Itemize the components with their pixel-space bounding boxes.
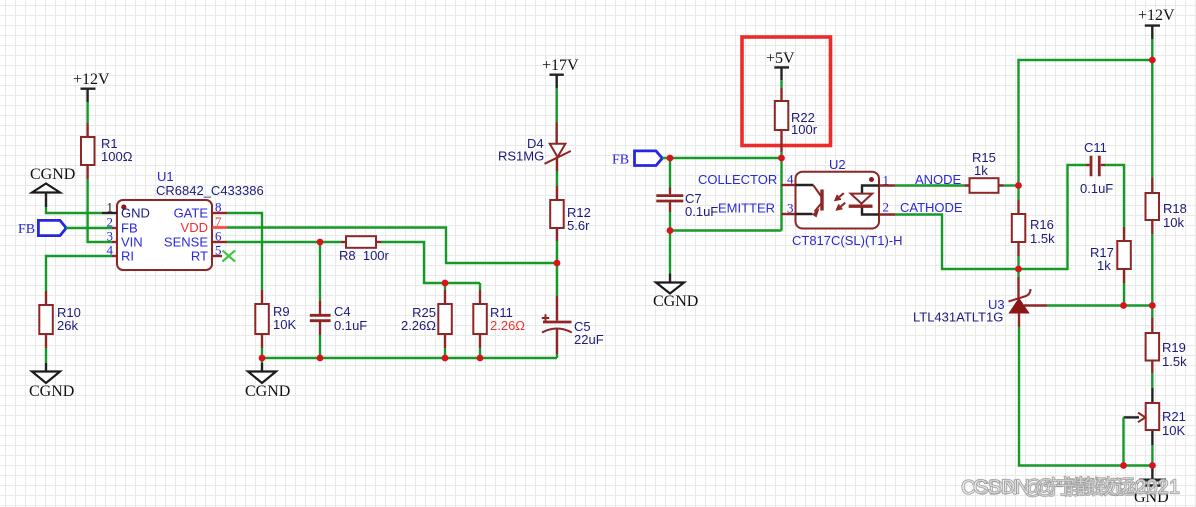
- svg-text:6: 6: [215, 229, 222, 244]
- wire C7 to emitter rail: [670, 229, 782, 231]
- svg-text:CGND: CGND: [29, 383, 74, 400]
- svg-text:3: 3: [107, 229, 114, 244]
- optocoupler U2 CT817C: [792, 157, 903, 248]
- svg-text:CT817C(SL)(T1)-H: CT817C(SL)(T1)-H: [792, 233, 903, 248]
- wire R18 to U3 ref node: [1151, 234, 1153, 305]
- svg-text:GND: GND: [121, 206, 150, 221]
- svg-text:CGND: CGND: [653, 293, 698, 310]
- svg-text:+12V: +12V: [1138, 7, 1175, 24]
- wire R9 to ground rail: [261, 348, 263, 358]
- svg-text:VIN: VIN: [121, 235, 143, 250]
- svg-text:100r: 100r: [791, 122, 818, 137]
- shunt regulator U3 LTL431: [913, 269, 1047, 327]
- resistor R19: [1146, 305, 1187, 373]
- resistor R22: [775, 88, 818, 152]
- svg-text:1.5k: 1.5k: [1030, 231, 1055, 246]
- resistor R10: [39, 291, 81, 348]
- svg-text:5.6r: 5.6r: [567, 218, 590, 233]
- watermark: [961, 476, 1180, 500]
- capacitor C4: [310, 242, 368, 358]
- svg-text:RI: RI: [121, 249, 134, 264]
- svg-text:SENSE: SENSE: [164, 235, 208, 250]
- power +17V: [542, 57, 579, 88]
- highlight box (red): [742, 37, 831, 146]
- wire R21 wiper down: [1122, 417, 1124, 465]
- U2 light arrows: [836, 193, 844, 200]
- svg-text:0.1uF: 0.1uF: [334, 318, 367, 333]
- wire R22 to FB node: [780, 152, 782, 158]
- wire R8 to R25/R11: [381, 242, 480, 283]
- svg-text:0.1uF: 0.1uF: [1080, 181, 1113, 196]
- svg-text:1.5k: 1.5k: [1162, 354, 1187, 369]
- ground GND: [1134, 466, 1169, 507]
- svg-text:FB: FB: [121, 221, 138, 236]
- power +12V (left): [73, 71, 110, 102]
- svg-text:10K: 10K: [273, 317, 296, 332]
- svg-text:0.1uF: 0.1uF: [685, 204, 718, 219]
- U1 pin 7 VDD (highlighted): [212, 226, 227, 229]
- svg-text:1k: 1k: [1097, 258, 1111, 273]
- net label ANODE, wire to R15: [895, 184, 965, 186]
- svg-text:+5V: +5V: [766, 50, 795, 67]
- U1 pin 2 FB: [112, 227, 117, 229]
- svg-text:100Ω: 100Ω: [101, 149, 133, 164]
- ground CGND (below R9): [245, 358, 290, 400]
- wire VDD to C5/R12 node: [227, 228, 557, 264]
- svg-text:U1: U1: [157, 169, 174, 184]
- U1 pin 1 GND: [102, 212, 117, 214]
- svg-text:8: 8: [215, 200, 222, 215]
- wire U3 anode to bottom rail: [1019, 327, 1152, 466]
- U1 pin 6 SENSE: [212, 241, 227, 243]
- wire pin4 RI to R10: [46, 256, 112, 291]
- svg-text:C4: C4: [334, 304, 351, 319]
- resistor R18: [1146, 178, 1187, 235]
- junction nodes (right): [667, 155, 674, 162]
- svg-text:1k: 1k: [974, 163, 988, 178]
- resistor R15: [965, 150, 1004, 193]
- wire +17V to D4: [556, 88, 558, 123]
- capacitor C11: [1019, 140, 1125, 269]
- resistor R12: [550, 186, 591, 241]
- svg-text:CATHODE: CATHODE: [900, 200, 963, 215]
- wire GATE down to R9: [227, 213, 262, 290]
- power +12V (right): [1138, 7, 1175, 39]
- ground rail CGND net: [262, 357, 557, 359]
- U2 LED: [862, 186, 879, 215]
- U2 phototransistor: [796, 185, 814, 214]
- capacitor C7: [656, 158, 718, 231]
- svg-text:+17V: +17V: [542, 57, 579, 74]
- junction nodes (left): [317, 239, 324, 246]
- resistor R16: [1012, 186, 1055, 270]
- wire SENSE to R8: [227, 241, 341, 243]
- svg-text:FB: FB: [18, 222, 35, 237]
- wire R21 to GND: [1151, 445, 1153, 466]
- svg-text:1: 1: [107, 200, 114, 215]
- ground CGND (below R10): [29, 363, 74, 400]
- svg-text:VDD: VDD: [181, 220, 208, 235]
- wire R1 to pin3 VIN: [88, 179, 112, 242]
- svg-text:4: 4: [107, 243, 114, 258]
- svg-text:2.26Ω: 2.26Ω: [490, 318, 525, 333]
- svg-text:CGND: CGND: [30, 166, 75, 183]
- svg-text:CR6842_C433386: CR6842_C433386: [156, 183, 264, 198]
- wire R15 to +12V node: [1004, 184, 1019, 186]
- U1 pin 4 RI: [112, 255, 117, 257]
- svg-text:CSDN @宁静致远2021: CSDN @宁静致远2021: [973, 476, 1180, 499]
- net label CATHODE, wire to node: [895, 215, 1019, 270]
- svg-text:CGND: CGND: [245, 383, 290, 400]
- wire R19 to R21: [1151, 373, 1153, 388]
- svg-text:2: 2: [883, 200, 890, 215]
- svg-text:22uF: 22uF: [574, 332, 604, 347]
- ground CGND (top, pointing up): [30, 166, 75, 207]
- svg-text:COLLECTOR: COLLECTOR: [698, 172, 777, 187]
- wire FB to optocoupler: [662, 158, 781, 231]
- svg-text:EMITTER: EMITTER: [718, 201, 775, 216]
- wire R10 to CGND: [45, 348, 47, 363]
- svg-text:26k: 26k: [57, 318, 78, 333]
- svg-text:+12V: +12V: [73, 71, 110, 88]
- op-amp U1 CR6842: [102, 169, 264, 270]
- wire FB to pin2: [66, 227, 112, 229]
- svg-text:ANODE: ANODE: [915, 172, 962, 187]
- svg-text:10k: 10k: [1163, 215, 1184, 230]
- svg-text:7: 7: [215, 214, 222, 229]
- svg-text:2: 2: [107, 215, 114, 230]
- wire CGND to pin1: [46, 207, 102, 213]
- svg-text:R18: R18: [1163, 201, 1187, 216]
- power +5V: [766, 50, 795, 80]
- svg-text:2.26Ω: 2.26Ω: [401, 318, 436, 333]
- net port FB (right): [612, 151, 662, 168]
- wire +12V to R1: [86, 102, 88, 123]
- resistor R17: [1090, 227, 1131, 305]
- U1 pin 5 RT (no connect): [212, 255, 222, 257]
- svg-text:U2: U2: [829, 157, 846, 172]
- svg-text:RS1MG: RS1MG: [498, 149, 544, 164]
- svg-text:R19: R19: [1162, 340, 1186, 355]
- svg-text:FB: FB: [612, 153, 629, 168]
- wire +12V rail: [1019, 39, 1153, 186]
- U1 pin 3 VIN: [112, 241, 117, 243]
- diode D4 RS1MG: [498, 123, 571, 172]
- U1 pin 8 GATE: [212, 212, 227, 214]
- capacitor C5 (polarized): [542, 263, 604, 358]
- svg-text:R21: R21: [1162, 409, 1186, 424]
- wire U3 ref to R19: [1047, 304, 1152, 306]
- svg-text:5: 5: [215, 243, 222, 258]
- svg-text:R16: R16: [1030, 217, 1054, 232]
- wire R12 to node: [556, 241, 558, 263]
- resistor R11: [473, 283, 525, 358]
- svg-text:RT: RT: [191, 249, 208, 264]
- svg-text:GATE: GATE: [174, 206, 209, 221]
- svg-text:C11: C11: [1084, 140, 1107, 155]
- resistor R8: [339, 236, 390, 263]
- net port FB (left): [18, 220, 66, 237]
- resistor R25: [401, 283, 452, 358]
- svg-text:LTL431ATLT1G: LTL431ATLT1G: [913, 310, 1003, 325]
- svg-text:R8 100r: R8 100r: [339, 248, 390, 263]
- potentiometer R21: [1124, 388, 1186, 445]
- wire D4 to R12: [556, 171, 558, 186]
- resistor R1: [81, 123, 133, 179]
- svg-text:10K: 10K: [1162, 423, 1185, 438]
- resistor R9: [255, 290, 296, 348]
- wire +5V to R22: [780, 80, 782, 88]
- ground CGND (below C7): [653, 231, 698, 311]
